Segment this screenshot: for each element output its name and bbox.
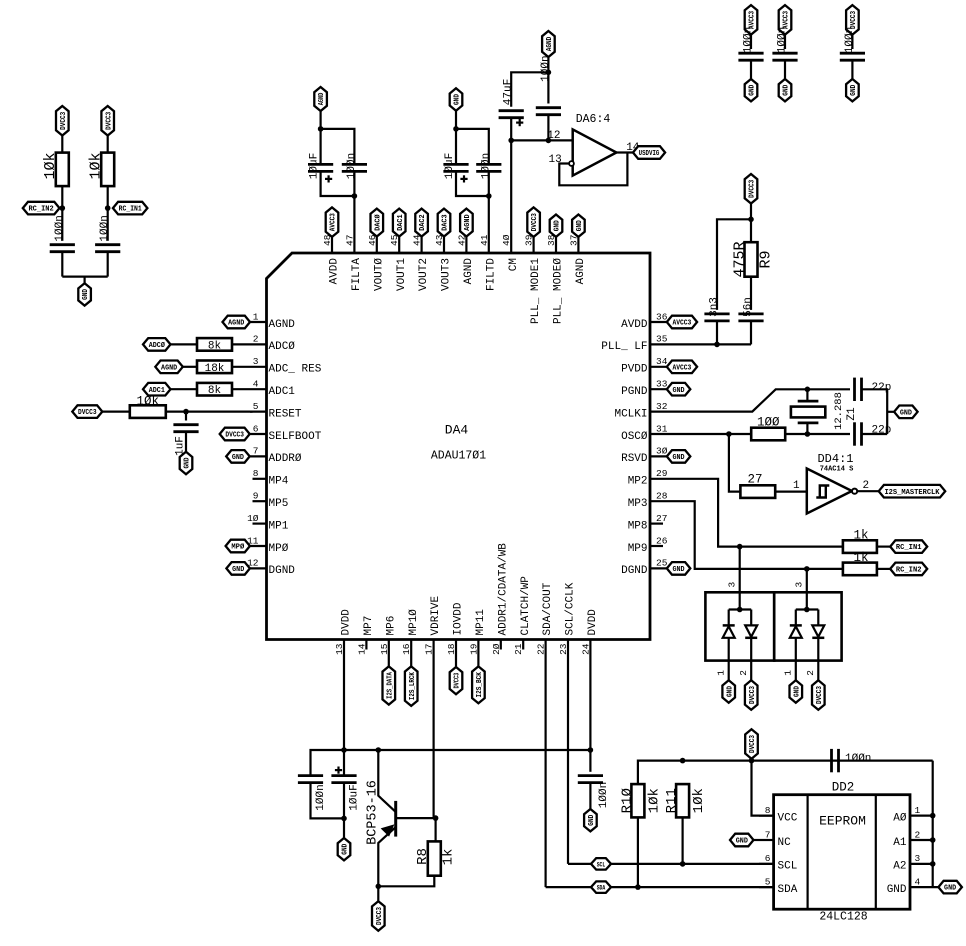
svg-text:2: 2: [863, 480, 870, 492]
svg-text:AVCC3: AVCC3: [672, 320, 691, 328]
capacitor 22p top: [853, 378, 856, 401]
svg-text:MPØ: MPØ: [269, 543, 289, 555]
flag AVCC3 at pin 36: [667, 316, 697, 329]
capacitor 10uF DVDD: [343, 750, 345, 776]
wire top joining caps: [321, 129, 355, 164]
capacitor 100n decoupling x=852.4: [840, 52, 865, 55]
svg-text:GND: GND: [900, 409, 913, 417]
svg-text:RC_IN1: RC_IN1: [896, 544, 922, 552]
wire 56n to PLL_LF: [750, 321, 752, 344]
wire 10uF bottom to gnd: [343, 783, 345, 838]
capacitor 100n DVDD left: [298, 774, 323, 777]
node A1: [930, 837, 936, 843]
svg-text:MP7: MP7: [363, 616, 375, 636]
svg-text:1ØØ: 1ØØ: [757, 416, 780, 430]
flag DAC2 above pin 44: [415, 209, 428, 237]
svg-text:23: 23: [558, 643, 569, 655]
capacitor 22p bottom: [853, 422, 856, 445]
EEPROM left pins 8,7,6,5: [759, 814, 774, 816]
capacitor 56n: [738, 312, 763, 315]
resistor 27: [740, 485, 775, 498]
svg-text:8: 8: [253, 468, 259, 479]
diode left (cathode bar top, pointing up): [790, 624, 802, 627]
svg-text:1ØØn: 1ØØn: [480, 153, 492, 179]
svg-text:MP11: MP11: [475, 609, 487, 636]
node caps join: [341, 816, 347, 822]
wire pin3: [183, 366, 197, 368]
svg-text:DVCC3: DVCC3: [749, 179, 757, 198]
svg-text:A1: A1: [893, 837, 907, 849]
svg-text:IOVDD: IOVDD: [453, 602, 465, 635]
wire feedback loop: [559, 153, 627, 186]
svg-text:MCLKI: MCLKI: [614, 408, 647, 420]
svg-text:DVCC3: DVCC3: [531, 213, 539, 232]
flag GND at pin 7 ADDR0: [226, 450, 250, 463]
svg-text:1ØØn: 1ØØn: [54, 215, 66, 241]
flag RC_IN1: [113, 202, 147, 215]
node RC junction 1: [60, 205, 66, 211]
wire rail right down to A0: [932, 761, 934, 888]
diode right (pointing down, cathode bar bottom): [745, 625, 757, 636]
svg-text:I2S_DATA: I2S_DATA: [386, 672, 394, 699]
svg-text:ADC_ RES: ADC_ RES: [269, 364, 322, 376]
resistor 10k (RC network 1): [56, 153, 69, 187]
wire 1k to flag RC_IN1: [877, 545, 890, 547]
svg-text:8: 8: [765, 805, 771, 816]
wire right diode to vcc: [817, 638, 819, 681]
svg-text:FILTA: FILTA: [351, 258, 363, 291]
emitter with arrow: [378, 827, 395, 886]
power flag DVCC3 below pin 18: [450, 667, 463, 694]
svg-text:33: 33: [656, 379, 668, 390]
svg-text:PVDD: PVDD: [621, 364, 648, 376]
svg-text:3: 3: [727, 582, 738, 588]
flag RC_IN2: [23, 202, 60, 215]
svg-text:1k: 1k: [853, 551, 868, 565]
node R11 SCL: [680, 861, 686, 867]
wire EEPROM vcc rail: [638, 761, 933, 785]
wire AGND down to node: [547, 57, 549, 72]
svg-text:1ØuF: 1ØuF: [444, 153, 456, 179]
flag DAC1 above pin 45: [393, 209, 406, 237]
wire PLL_LF pin 35: [675, 343, 751, 345]
svg-text:PLL_ LF: PLL_ LF: [601, 341, 647, 353]
wire 1uF to GND: [185, 432, 187, 452]
net tag SDA: [591, 881, 611, 893]
svg-text:21: 21: [513, 643, 524, 655]
svg-text:DA6:4: DA6:4: [576, 113, 611, 126]
power flag AVCC3 above pin 48: [326, 207, 339, 237]
svg-text:PGND: PGND: [621, 386, 648, 398]
node RC_IN1 diode junction: [737, 544, 743, 550]
svg-text:74AC14 S: 74AC14 S: [820, 466, 854, 474]
svg-text:MP4: MP4: [269, 476, 289, 488]
svg-text:ADDRØ: ADDRØ: [269, 453, 302, 465]
wire node to capacitor: [61, 208, 63, 241]
svg-text:1Øk: 1Øk: [42, 152, 59, 179]
svg-text:MP1Ø: MP1Ø: [408, 609, 420, 636]
wire R11 to SCL row: [681, 817, 683, 864]
svg-text:AVCC3: AVCC3: [672, 364, 691, 372]
wire op-amp output to flag: [616, 151, 633, 153]
wire flag to resistor: [107, 136, 109, 153]
svg-text:1k: 1k: [853, 529, 868, 543]
wire pin2: [171, 343, 198, 345]
svg-text:MP9: MP9: [628, 543, 648, 555]
wire 47uF bottom to node: [510, 118, 512, 140]
flag GND at pin 12 DGND: [226, 562, 250, 575]
ground flag RC networks: [78, 283, 91, 305]
svg-text:GND: GND: [749, 84, 757, 96]
op-amp DA6:4: [573, 129, 617, 175]
flag DVCC3 for RESET: [72, 405, 102, 418]
svg-text:AVCC3: AVCC3: [330, 213, 338, 232]
svg-text:2: 2: [915, 829, 921, 840]
svg-text:AVCC3: AVCC3: [783, 10, 791, 29]
svg-text:AGND: AGND: [575, 258, 587, 285]
flag I2S_DATA below pin 15: [383, 666, 396, 704]
svg-text:24LC128: 24LC128: [819, 911, 867, 924]
wire FILTD caps bottom to pin 41: [456, 172, 489, 196]
ground flag above pin 38: [550, 215, 563, 237]
svg-text:DVCC3: DVCC3: [60, 111, 68, 130]
flag GND at pin 25: [667, 562, 691, 575]
power flag AGND above CM caps: [542, 31, 555, 57]
wire cap to gnd: [750, 61, 752, 80]
wire 22p top to right rail: [862, 389, 887, 434]
svg-text:ADDR1/CDATA/WB: ADDR1/CDATA/WB: [497, 543, 509, 636]
svg-text:47: 47: [344, 235, 355, 246]
svg-text:8k: 8k: [208, 385, 222, 397]
power flag DVCC3 (RC network 2): [101, 106, 114, 136]
svg-text:AVDD: AVDD: [329, 258, 341, 285]
wire entry pin 3: [739, 547, 741, 610]
svg-text:12: 12: [547, 130, 560, 142]
svg-text:1: 1: [783, 670, 794, 676]
svg-text:41: 41: [479, 234, 490, 246]
svg-text:AGND: AGND: [318, 92, 326, 105]
IC DA4 ADAU1701 body: [267, 253, 651, 640]
wire MP3 pin 28 to RC_IN2 row: [675, 501, 843, 569]
svg-text:MP8: MP8: [628, 520, 648, 532]
power flag DVCC3 above pin 39: [527, 207, 540, 237]
svg-text:DD2: DD2: [832, 781, 855, 795]
svg-text:35: 35: [656, 334, 668, 345]
svg-text:DAC1: DAC1: [397, 214, 405, 231]
svg-text:2Ø: 2Ø: [491, 643, 502, 655]
node A0: [930, 813, 936, 819]
svg-text:DVCC3: DVCC3: [78, 409, 97, 417]
wire top joining FILTD caps: [456, 129, 489, 164]
svg-text:1Øk: 1Øk: [88, 152, 105, 179]
resistor R11 10k: [676, 784, 689, 817]
svg-text:29: 29: [656, 468, 668, 479]
svg-text:GND: GND: [850, 84, 858, 96]
wire SCL row: [568, 863, 774, 865]
svg-text:19: 19: [468, 643, 479, 655]
node RC junction 2: [105, 205, 111, 211]
wire MP2 pin 29 to RC_IN1 row: [675, 479, 843, 547]
svg-text:1ØØn: 1ØØn: [540, 55, 552, 81]
resistor 8k pin4: [197, 383, 232, 396]
svg-text:1ØØn: 1ØØn: [598, 782, 610, 808]
node FILTA top: [318, 126, 324, 132]
transistor Q1 BCP53-16: [394, 801, 397, 837]
svg-text:GND: GND: [736, 838, 749, 846]
svg-text:GND: GND: [184, 457, 192, 469]
svg-text:13: 13: [334, 643, 345, 655]
capacitor 100n (RC network 2): [95, 243, 120, 246]
node CM junction 47uF: [508, 138, 514, 144]
svg-text:1: 1: [793, 480, 800, 492]
svg-text:AVDD: AVDD: [621, 319, 648, 331]
svg-text:1ØuF: 1ØuF: [309, 153, 321, 179]
svg-text:5: 5: [253, 401, 259, 412]
svg-text:SELFBOOT: SELFBOOT: [269, 431, 322, 443]
wire R10 to SDA row: [637, 817, 639, 887]
svg-text:14: 14: [356, 643, 367, 655]
capacitor 100n EEPROM: [830, 749, 833, 772]
wire 100n bottom to node: [547, 115, 549, 140]
wire MCLKI pin 32: [675, 389, 807, 411]
ground flag below 1uF: [180, 452, 193, 474]
wire split to diodes: [796, 608, 819, 610]
wire OSC0 node down to 27 resistor: [729, 434, 741, 492]
crystal Z1 12.288: [806, 389, 808, 401]
wire collector from rail: [378, 750, 395, 812]
wire capacitor to gnd rail: [61, 252, 63, 276]
svg-text:R8: R8: [415, 848, 431, 865]
wire flag to cap: [750, 35, 752, 49]
svg-text:VCC: VCC: [778, 812, 798, 824]
svg-text:NC: NC: [778, 837, 792, 849]
svg-text:2: 2: [738, 670, 749, 676]
svg-text:1: 1: [716, 670, 727, 676]
power flag GND above FILTD caps: [450, 88, 463, 110]
svg-text:1Øk: 1Øk: [137, 395, 160, 409]
wire junction down to 1uF: [185, 412, 187, 421]
svg-text:R11: R11: [664, 788, 680, 813]
svg-text:GND: GND: [588, 814, 596, 826]
svg-text:MP5: MP5: [269, 498, 289, 510]
flag I2S_LRCK below pin 16: [405, 666, 418, 706]
svg-text:15: 15: [379, 643, 390, 655]
IC DA4 pin stubs, numbers and names: [247, 140, 675, 887]
wire flag to cap: [851, 35, 853, 49]
svg-text:DD4:1: DD4:1: [817, 452, 853, 466]
capacitor 100n FILTD: [476, 163, 501, 166]
svg-text:5: 5: [765, 876, 771, 887]
svg-text:MP2: MP2: [628, 476, 648, 488]
node crystal bottom: [805, 431, 811, 437]
svg-text:GND: GND: [944, 885, 957, 893]
svg-text:8k: 8k: [208, 340, 222, 352]
svg-text:MP6: MP6: [385, 616, 397, 636]
svg-text:DVCC3: DVCC3: [454, 672, 462, 688]
wire 27 to inverter input: [775, 491, 807, 493]
node CM top: [546, 70, 552, 76]
svg-text:47uF: 47uF: [503, 79, 515, 105]
svg-text:A2: A2: [893, 861, 906, 873]
ground flag NC pin7: [730, 834, 754, 847]
EEPROM DD2 box: [774, 795, 910, 910]
power flag DVCC3 decoupling cap x=852.4: [846, 5, 859, 34]
ground flag diode pack: [790, 680, 803, 702]
svg-text:DVCC3: DVCC3: [105, 111, 113, 130]
svg-text:DVDD: DVDD: [587, 609, 599, 636]
svg-text:VOUT1: VOUT1: [396, 258, 408, 291]
node PLL_LF junction: [714, 342, 720, 348]
svg-text:7: 7: [253, 446, 259, 457]
wire R8 bottom to emitter: [378, 876, 434, 887]
capacitor 100n decoupling x=751: [738, 52, 763, 55]
wire resistor to node: [107, 186, 109, 208]
diode pack box: [774, 592, 841, 660]
diode pack box: [705, 592, 774, 660]
svg-text:GND: GND: [783, 84, 791, 96]
wire split to diodes: [729, 608, 752, 610]
ground flag pin24 cap: [584, 809, 597, 831]
svg-text:BCP53-16: BCP53-16: [366, 780, 381, 845]
svg-text:DVCC3: DVCC3: [749, 685, 757, 704]
svg-text:R1Ø: R1Ø: [619, 788, 635, 813]
svg-text:1Øk: 1Øk: [646, 788, 662, 813]
wire GND flag down: [455, 111, 457, 129]
wire left diode to gnd: [795, 638, 797, 681]
capacitor 1uF: [173, 423, 198, 426]
wire entry pin 3: [806, 569, 808, 610]
svg-text:24: 24: [580, 643, 591, 655]
flag AGND at pin 3: [155, 361, 183, 374]
wire node to R9: [750, 219, 752, 242]
wire top row to 22p: [807, 388, 850, 390]
svg-text:GND: GND: [576, 220, 584, 232]
wire AGND flag down: [320, 111, 322, 129]
capacitor 10uF FILTD: [455, 129, 457, 164]
svg-text:1ØØn: 1ØØn: [845, 753, 871, 765]
svg-text:3Ø: 3Ø: [656, 446, 668, 457]
wire base: [396, 817, 436, 819]
svg-text:18k: 18k: [205, 363, 225, 375]
capacitor 3n3: [704, 312, 729, 315]
ground flag diode pack: [722, 680, 735, 702]
svg-text:RESET: RESET: [269, 408, 302, 420]
svg-text:DVCC3: DVCC3: [749, 734, 757, 753]
svg-text:ADC1: ADC1: [269, 386, 296, 398]
svg-text:1ØØn: 1ØØn: [346, 153, 358, 179]
flag AGND at pin 1: [223, 316, 251, 329]
wire 3n3 to PLL_LF: [716, 321, 718, 344]
svg-text:4: 4: [915, 876, 921, 887]
svg-text:17: 17: [424, 644, 435, 655]
svg-text:DVDD: DVDD: [341, 609, 353, 636]
svg-text:MPØ: MPØ: [231, 543, 245, 552]
svg-text:DVCC3: DVCC3: [376, 906, 384, 925]
resistor 100 OSC0: [751, 428, 785, 441]
svg-text:RSVD: RSVD: [621, 453, 648, 465]
wire joining RC caps to ground: [62, 276, 107, 278]
resistor 10k RESET: [130, 405, 166, 418]
wire output to flag: [857, 490, 879, 492]
node R10 SDA: [635, 884, 641, 890]
ground flag above pin 37: [572, 215, 585, 237]
wire DVCC3 to node: [750, 204, 752, 220]
svg-text:3: 3: [915, 853, 921, 864]
node RESET junction: [183, 409, 189, 415]
node rail pin13: [341, 747, 347, 753]
svg-text:DVCC3: DVCC3: [225, 432, 244, 440]
node rail pin24: [588, 747, 594, 753]
node RC_IN2 diode junction: [804, 566, 810, 572]
svg-text:RC_IN2: RC_IN2: [28, 206, 53, 214]
node diode split: [737, 607, 743, 613]
svg-text:GND: GND: [887, 884, 907, 896]
wire 100 to crystal bottom: [785, 433, 850, 435]
svg-text:18: 18: [446, 643, 457, 655]
wire node to capacitor: [107, 208, 109, 241]
svg-text:DVCC3: DVCC3: [850, 10, 858, 29]
svg-text:OSCØ: OSCØ: [621, 431, 648, 443]
node FILTD top: [453, 126, 459, 132]
flag MP0 at pin 11: [226, 540, 250, 553]
inverter output bubble: [852, 489, 857, 494]
svg-text:1: 1: [253, 311, 259, 322]
flag DVCC3 at pin 6 SELFBOOT: [220, 428, 250, 441]
node base junction: [433, 815, 439, 821]
wire 100n bottom: [311, 783, 345, 818]
svg-text:475R: 475R: [732, 241, 749, 277]
svg-text:GND: GND: [232, 566, 245, 574]
svg-text:SDA/COUT: SDA/COUT: [542, 582, 554, 635]
svg-text:AGND: AGND: [269, 319, 296, 331]
svg-text:RC_IN2: RC_IN2: [896, 567, 922, 575]
node FILTA bottom junction: [352, 193, 358, 199]
capacitor 100n at pin24: [589, 750, 591, 772]
svg-text:VOUT2: VOUT2: [418, 258, 430, 291]
wire resistor to node: [61, 186, 63, 208]
flag DAC3 above pin 43: [438, 209, 451, 237]
flag RC_IN2 right: [890, 563, 927, 576]
ground flag EEPROM pin4: [938, 881, 962, 894]
svg-text:1Øk: 1Øk: [691, 788, 707, 813]
svg-text:3: 3: [794, 582, 805, 588]
flag ADC0 at pin 2: [143, 338, 171, 351]
wire DVCC3 to R: [102, 411, 131, 413]
power flag AVCC3 decoupling cap x=785: [779, 5, 792, 34]
wire CM to op-amp input 12: [511, 139, 573, 141]
svg-text:ADCØ: ADCØ: [149, 341, 166, 350]
svg-text:MP3: MP3: [628, 498, 648, 510]
svg-text:R9: R9: [758, 250, 775, 268]
svg-text:GND: GND: [672, 566, 685, 574]
svg-text:6: 6: [253, 423, 259, 434]
wire junction to DVCC3: [377, 886, 379, 901]
svg-text:PLL_ MODEØ: PLL_ MODEØ: [553, 258, 565, 324]
svg-text:22p: 22p: [872, 382, 892, 394]
svg-text:SDA: SDA: [778, 884, 798, 896]
svg-text:I2S_BCK: I2S_BCK: [476, 672, 484, 698]
flag GND at pin 33: [667, 383, 691, 396]
svg-text:PLL_ MODE1: PLL_ MODE1: [530, 258, 542, 324]
svg-text:GND: GND: [726, 685, 734, 697]
svg-text:3n3: 3n3: [709, 297, 721, 317]
svg-text:56n: 56n: [743, 297, 755, 317]
capacitor 100n decoupling x=785: [772, 52, 797, 55]
svg-text:I2S_LRCK: I2S_LRCK: [409, 672, 417, 701]
node rail transistor: [376, 747, 382, 753]
svg-text:4: 4: [253, 379, 259, 390]
svg-text:1ØuF: 1ØuF: [348, 784, 360, 810]
